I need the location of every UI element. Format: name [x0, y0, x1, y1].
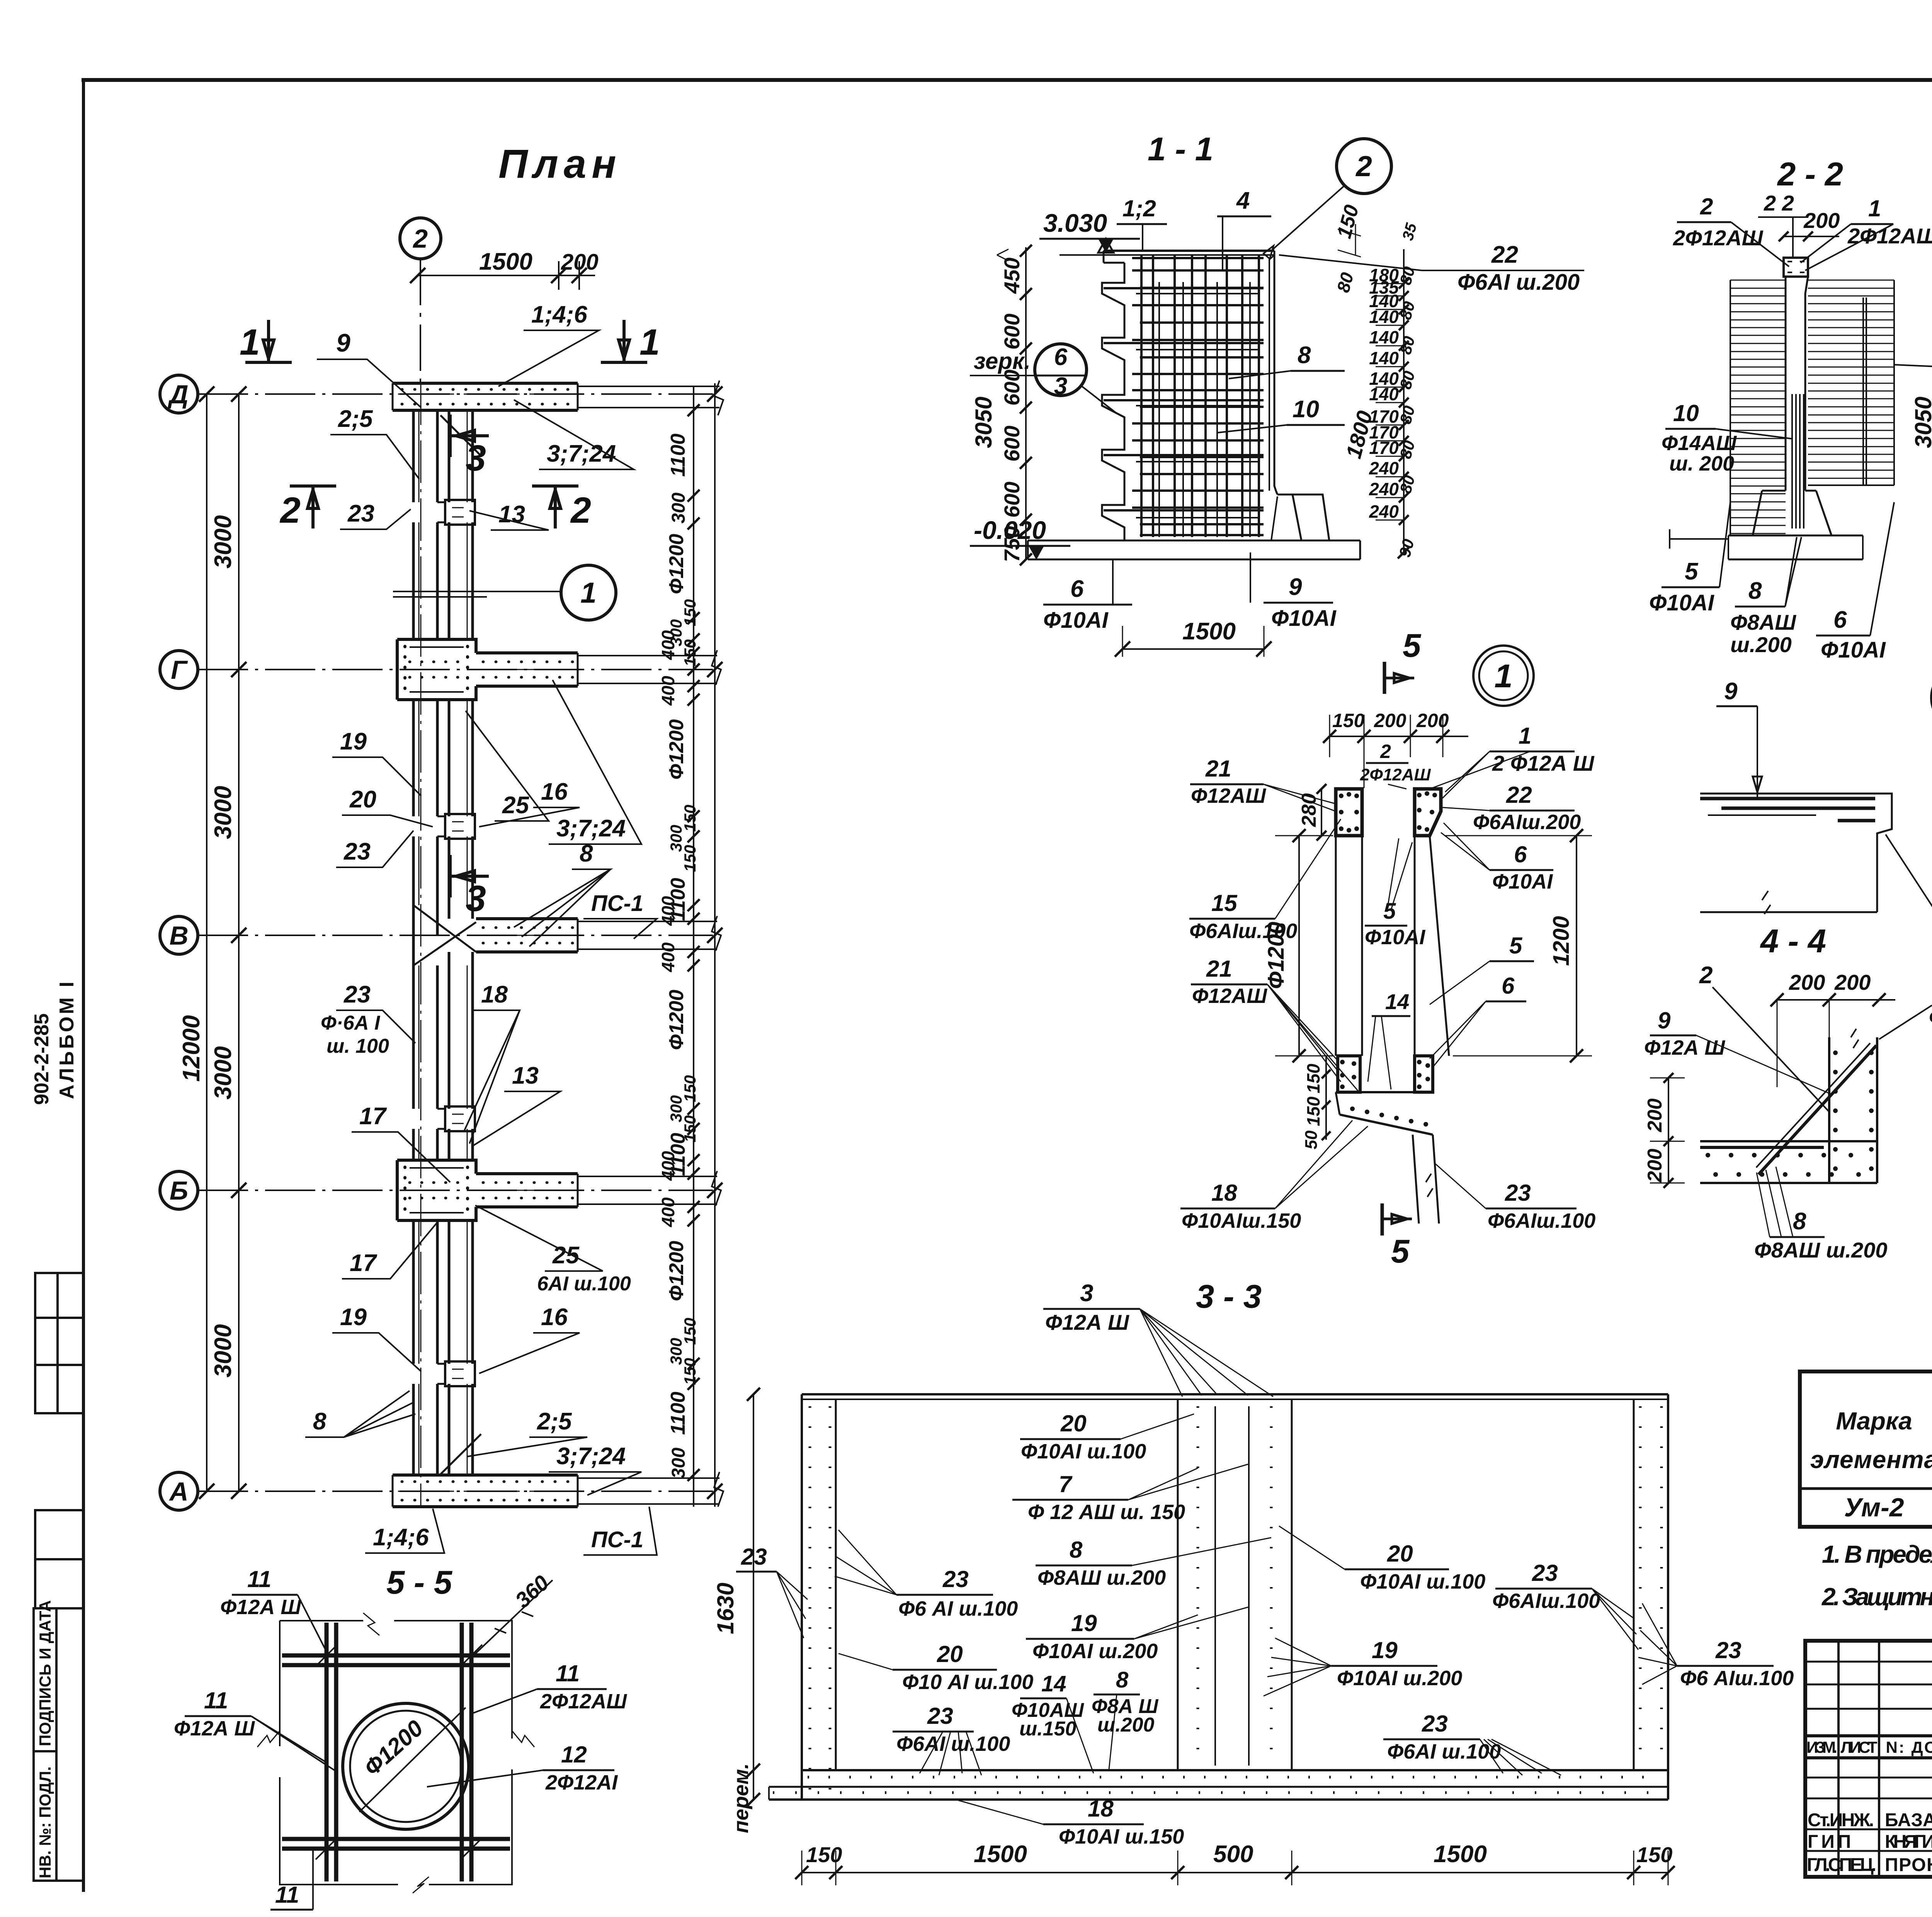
- svg-text:8: 8: [1070, 1537, 1083, 1563]
- svg-text:902-2-285: 902-2-285: [31, 1013, 53, 1105]
- svg-text:200: 200: [1644, 1149, 1666, 1183]
- svg-text:10: 10: [1293, 396, 1319, 423]
- plan small stub: [437, 502, 445, 522]
- section 3-3 middle wall: [1177, 1399, 1179, 1770]
- svg-text:9: 9: [336, 328, 350, 357]
- svg-text:25: 25: [502, 792, 529, 819]
- svg-text:150: 150: [681, 845, 699, 872]
- svg-text:Ф6АIш.100: Ф6АIш.100: [1189, 919, 1297, 943]
- corner chamfer: [440, 415, 481, 456]
- svg-text:1500: 1500: [1434, 1841, 1487, 1868]
- svg-text:1;2: 1;2: [1122, 195, 1156, 221]
- svg-text:500: 500: [1213, 1841, 1253, 1868]
- svg-text:23: 23: [344, 981, 371, 1008]
- svg-text:Ф10АI ш.150: Ф10АI ш.150: [1059, 1825, 1184, 1848]
- svg-text:14: 14: [1385, 989, 1409, 1014]
- svg-text:Ф1200: Ф1200: [665, 534, 688, 594]
- section 2-2 left block lines: [1730, 280, 1786, 281]
- svg-text:Ст.ИНЖ.: Ст.ИНЖ.: [1808, 1810, 1874, 1830]
- svg-text:240: 240: [1369, 458, 1399, 478]
- svg-text:Ф12А Ш: Ф12А Ш: [1929, 1005, 1932, 1029]
- section 5-5 diameter line: [359, 1708, 466, 1812]
- svg-text:150: 150: [1303, 1096, 1323, 1126]
- svg-text:Ф10АI ш.100: Ф10АI ш.100: [1360, 1570, 1485, 1593]
- svg-text:240: 240: [1369, 501, 1399, 522]
- wall end break: [712, 916, 721, 951]
- svg-text:2;5: 2;5: [338, 406, 373, 432]
- axis Г circle: [160, 651, 198, 688]
- svg-text:11: 11: [204, 1688, 228, 1713]
- dim 1500-200 top: [418, 275, 595, 276]
- svg-text:1: 1: [1519, 723, 1531, 749]
- svg-text:2 2: 2 2: [1764, 191, 1794, 215]
- svg-text:150: 150: [681, 639, 699, 666]
- plan wall segment left: [413, 1384, 437, 1475]
- svg-text:Ф1200: Ф1200: [665, 719, 688, 780]
- svg-text:Ф8АШ: Ф8АШ: [1730, 610, 1796, 634]
- section mark 2: [532, 484, 578, 488]
- detail 2 circle callout: [1931, 664, 1932, 731]
- axis Г line: [198, 669, 713, 670]
- section 2-2 top cap: [1784, 258, 1808, 277]
- bottom corner chamfer: [440, 1434, 481, 1474]
- section 5-5 dim 360: [471, 1580, 553, 1657]
- svg-text:14: 14: [1041, 1671, 1066, 1696]
- svg-text:13: 13: [512, 1062, 539, 1089]
- svg-text:23: 23: [347, 500, 374, 527]
- svg-text:240: 240: [1369, 479, 1399, 499]
- svg-text:600: 600: [1000, 482, 1024, 518]
- svg-text:300: 300: [668, 493, 689, 523]
- svg-text:8: 8: [1298, 342, 1311, 369]
- svg-text:12: 12: [561, 1742, 587, 1767]
- svg-text:200: 200: [561, 250, 599, 275]
- plan wall segment right: [449, 965, 473, 1109]
- section 1-1 tooth bars: [1104, 287, 1264, 289]
- svg-text:4: 4: [1236, 187, 1250, 214]
- svg-text:25: 25: [552, 1242, 580, 1269]
- svg-text:170: 170: [1369, 438, 1399, 458]
- section 5-5 circle: [343, 1703, 469, 1829]
- plan wall segment right: [449, 1129, 473, 1160]
- svg-text:ПОДПИСЬ И ДАТА: ПОДПИСЬ И ДАТА: [36, 1600, 54, 1746]
- svg-text:2: 2: [1700, 194, 1713, 219]
- svg-text:1: 1: [1868, 195, 1881, 221]
- axis А line: [198, 1490, 713, 1492]
- section 1-1 rebar mesh verticals: [1140, 255, 1143, 537]
- svg-text:Ф6АI ш.200: Ф6АI ш.200: [1458, 270, 1580, 295]
- plan wall top corner at D: [393, 383, 578, 410]
- detail 1 tail wall: [1413, 1135, 1439, 1224]
- svg-text:6АI ш.100: 6АI ш.100: [537, 1273, 631, 1295]
- svg-text:15: 15: [1211, 890, 1238, 916]
- svg-text:150: 150: [681, 1358, 699, 1385]
- svg-text:3050: 3050: [971, 397, 997, 448]
- plan axis vertical line: [420, 382, 422, 1507]
- svg-text:3000: 3000: [210, 515, 236, 569]
- svg-text:Ф6АIш.100: Ф6АIш.100: [1492, 1589, 1600, 1613]
- detail 1 bottom band: [1336, 1091, 1433, 1093]
- title block left table verticals: [1838, 1641, 1932, 1877]
- svg-text:5: 5: [1391, 1233, 1410, 1270]
- svg-text:19: 19: [1071, 1610, 1097, 1636]
- svg-text:6: 6: [1502, 973, 1515, 999]
- svg-text:23: 23: [1422, 1711, 1448, 1737]
- section 4-4 bottom slab: [1700, 1140, 1877, 1142]
- svg-text:21: 21: [1206, 956, 1232, 982]
- svg-text:450: 450: [1000, 258, 1024, 294]
- svg-text:6: 6: [1833, 607, 1847, 633]
- section 1-1 right dim ladder: [1403, 249, 1405, 552]
- svg-text:Ф10АIш.150: Ф10АIш.150: [1182, 1209, 1301, 1232]
- section 3-3 box outline: [802, 1393, 1668, 1395]
- svg-text:5: 5: [1403, 627, 1422, 664]
- svg-text:11: 11: [247, 1566, 271, 1592]
- svg-text:18: 18: [1211, 1180, 1237, 1206]
- svg-text:Ф12А Ш: Ф12А Ш: [1644, 1036, 1725, 1059]
- section mark 1: [601, 361, 647, 364]
- svg-text:1 - 1: 1 - 1: [1148, 131, 1213, 168]
- svg-text:23: 23: [1715, 1637, 1742, 1663]
- svg-text:2: 2: [1355, 150, 1372, 182]
- svg-text:750: 750: [1000, 526, 1024, 562]
- section 1-1 left dim chain: [1025, 247, 1027, 560]
- svg-text:19: 19: [1372, 1637, 1398, 1663]
- svg-text:2 - 2: 2 - 2: [1777, 156, 1843, 193]
- svg-text:ш.150: ш.150: [1019, 1718, 1077, 1740]
- svg-text:Ф1200: Ф1200: [665, 990, 688, 1050]
- svg-text:Ф6АI ш.100: Ф6АI ш.100: [896, 1732, 1010, 1756]
- detail 1 circle callout: [1473, 646, 1534, 706]
- section 2-2 foot: [1753, 491, 1832, 535]
- svg-text:Ф12А Ш: Ф12А Ш: [174, 1717, 255, 1740]
- svg-text:3;7;24: 3;7;24: [556, 815, 626, 842]
- plan wall segment left: [413, 700, 437, 816]
- svg-text:11: 11: [556, 1660, 580, 1686]
- svg-text:ПРОНИН: ПРОНИН: [1885, 1855, 1932, 1875]
- svg-text:1200: 1200: [1549, 916, 1574, 966]
- svg-text:8: 8: [1116, 1667, 1129, 1693]
- plan wall segment left: [413, 522, 437, 639]
- svg-text:20: 20: [1387, 1541, 1413, 1567]
- svg-text:ш. 100: ш. 100: [327, 1035, 389, 1057]
- section 5-5 crossing ticks: [316, 1645, 337, 1666]
- svg-text:150: 150: [1636, 1842, 1672, 1867]
- svg-text:20: 20: [937, 1641, 963, 1667]
- svg-text:23: 23: [741, 1544, 767, 1570]
- svg-text:11: 11: [275, 1882, 299, 1908]
- svg-text:ПС-1: ПС-1: [591, 891, 643, 916]
- svg-text:1: 1: [1494, 658, 1512, 695]
- section 2-2 wall: [1786, 277, 1808, 491]
- svg-text:зерк.: зерк.: [974, 348, 1031, 374]
- axis Б circle: [160, 1171, 198, 1209]
- svg-text:2: 2: [1699, 962, 1713, 989]
- detail 2 slab outline: [1700, 794, 1892, 912]
- svg-text:600: 600: [1000, 314, 1024, 350]
- svg-text:23: 23: [344, 838, 371, 865]
- svg-text:БАЗАНОВ: БАЗАНОВ: [1885, 1810, 1932, 1830]
- svg-text:1100: 1100: [667, 1392, 689, 1435]
- svg-text:Ф1200: Ф1200: [665, 1241, 688, 1301]
- svg-text:400: 400: [658, 1151, 678, 1181]
- plan cross wall thin: [578, 1176, 717, 1204]
- svg-text:2Ф12АШ: 2Ф12АШ: [1360, 765, 1431, 784]
- plan junction block: [397, 1160, 476, 1174]
- svg-text:2Ф12АШ: 2Ф12АШ: [1673, 226, 1764, 250]
- svg-text:16: 16: [541, 1304, 568, 1331]
- svg-text:23: 23: [927, 1703, 953, 1729]
- plan wall segment right: [449, 1220, 473, 1364]
- svg-text:23: 23: [1532, 1560, 1558, 1586]
- svg-text:150: 150: [806, 1842, 842, 1867]
- svg-text:В: В: [169, 921, 188, 950]
- svg-text:1: 1: [639, 322, 660, 363]
- svg-text:200: 200: [1803, 208, 1840, 233]
- plan small stub: [437, 1109, 445, 1129]
- page frame top border: [83, 78, 1932, 82]
- svg-text:А: А: [168, 1477, 188, 1506]
- svg-text:Ф12А Ш: Ф12А Ш: [1045, 1310, 1129, 1334]
- axis Д line: [198, 393, 713, 395]
- plan cross wall thin: [578, 921, 717, 949]
- section mark 3: [449, 855, 452, 897]
- section 4-4 diagonal bars: [1759, 1045, 1876, 1174]
- svg-text:3: 3: [1080, 1280, 1093, 1307]
- left dimension chain 3000s: [238, 394, 240, 1491]
- svg-text:16: 16: [541, 778, 568, 805]
- title block outer: [1805, 1641, 1932, 1877]
- inventory number box: [34, 1751, 56, 1881]
- section mark 1: [245, 361, 292, 364]
- svg-text:ш. 200: ш. 200: [1669, 452, 1734, 475]
- section 2-2 right block lines: [1808, 280, 1894, 281]
- svg-text:ПС-1: ПС-1: [591, 1527, 643, 1552]
- section 1-1 inner cage: [1158, 282, 1160, 537]
- svg-text:3000: 3000: [210, 786, 236, 839]
- svg-text:20: 20: [1060, 1411, 1087, 1436]
- detail 1 top dims 150 200 200: [1330, 736, 1468, 737]
- axis В line: [198, 935, 713, 936]
- svg-text:Ф10АI: Ф10АI: [1365, 926, 1425, 949]
- axis А circle: [160, 1472, 198, 1510]
- svg-text:2: 2: [1380, 741, 1391, 762]
- svg-text:17: 17: [359, 1103, 387, 1130]
- section 3-3 left dim 1630: [753, 1394, 754, 1800]
- svg-text:200: 200: [1416, 710, 1449, 731]
- svg-text:2: 2: [279, 490, 301, 531]
- detail 1 bottom right foot box: [1415, 1056, 1433, 1092]
- detail 1 left wall: [1336, 836, 1362, 1056]
- svg-text:3: 3: [466, 878, 486, 919]
- stamp middle cells: [35, 1510, 83, 1608]
- svg-text:400: 400: [658, 1197, 678, 1227]
- svg-text:19: 19: [340, 1304, 367, 1331]
- svg-text:Ф 12 АШ ш. 150: Ф 12 АШ ш. 150: [1028, 1501, 1185, 1524]
- svg-text:5: 5: [1509, 933, 1523, 958]
- armature table frame: [1800, 1371, 1932, 1527]
- svg-text:150: 150: [1303, 1064, 1323, 1093]
- plan top wall thin part: [578, 386, 719, 408]
- svg-text:2;5: 2;5: [537, 1408, 572, 1435]
- plan wall at V junction: [413, 905, 437, 965]
- section 2-2 wall rebar: [1791, 394, 1793, 529]
- svg-text:НВ. №: ПОДЛ.: НВ. №: ПОДЛ.: [36, 1766, 54, 1878]
- svg-text:Ф6 АIш.100: Ф6 АIш.100: [1680, 1667, 1794, 1690]
- plan cross wall hatched: [476, 653, 578, 686]
- axis В circle: [160, 916, 198, 954]
- svg-text:140: 140: [1369, 307, 1399, 327]
- plan small stub: [437, 1364, 445, 1384]
- plan cross wall hatched: [476, 1174, 578, 1207]
- svg-text:ИЗМ.: ИЗМ.: [1806, 1738, 1837, 1756]
- page frame left border: [82, 80, 85, 1890]
- plan small stub: [437, 816, 445, 836]
- svg-text:1: 1: [580, 576, 597, 609]
- svg-text:Ф10 АI ш.100: Ф10 АI ш.100: [902, 1671, 1033, 1694]
- svg-text:3000: 3000: [210, 1046, 236, 1100]
- svg-text:19: 19: [340, 728, 367, 755]
- grid 2 circle: [400, 218, 441, 259]
- svg-text:3: 3: [1054, 373, 1067, 399]
- section 3-3 left wall rebar: [835, 1399, 837, 1770]
- svg-text:10: 10: [1673, 400, 1699, 426]
- svg-text:Ф6АI ш.100: Ф6АI ш.100: [1387, 1740, 1501, 1763]
- plan wall segment right: [449, 410, 473, 502]
- svg-text:элемента: элемента: [1810, 1446, 1932, 1473]
- plan wall segment left: [413, 410, 437, 502]
- callout circle 2: [1337, 139, 1391, 194]
- svg-text:5: 5: [1383, 899, 1396, 924]
- svg-text:Ф12А Ш: Ф12А Ш: [220, 1596, 301, 1619]
- detail 1 right wall: [1414, 836, 1416, 1056]
- svg-text:18: 18: [1088, 1796, 1114, 1822]
- plan cross wall hatched: [476, 919, 578, 952]
- svg-text:1500: 1500: [479, 248, 532, 275]
- svg-text:22: 22: [1506, 782, 1532, 808]
- svg-text:3 - 3: 3 - 3: [1196, 1278, 1262, 1315]
- section 5-5 horizontal bars: [282, 1654, 510, 1658]
- svg-text:Ф6 АI ш.100: Ф6 АI ш.100: [898, 1597, 1018, 1620]
- plan wall segment left: [413, 1129, 437, 1160]
- section 4-4 wall verticals: [1828, 1037, 1830, 1183]
- svg-text:400: 400: [658, 630, 678, 660]
- detail 1 bottom left foot box: [1338, 1056, 1360, 1092]
- svg-text:План: План: [498, 141, 622, 187]
- plan wall segment right: [449, 1384, 473, 1475]
- svg-text:Ф·6А I: Ф·6А I: [321, 1012, 381, 1034]
- section 3-3 bottom dims: [802, 1872, 1668, 1873]
- svg-text:2 Ф12А Ш: 2 Ф12А Ш: [1492, 751, 1595, 775]
- section 4-4 dims 200 200: [1777, 999, 1895, 1001]
- svg-text:21: 21: [1205, 756, 1231, 782]
- detail 1 dim 280: [1321, 789, 1322, 836]
- svg-text:9: 9: [1658, 1008, 1671, 1033]
- wall end break: [712, 650, 721, 685]
- svg-text:8: 8: [1748, 578, 1762, 604]
- section 5-5 vertical bars: [325, 1623, 329, 1881]
- section 4-4 left dims 200 200: [1668, 1078, 1669, 1183]
- svg-text:3050: 3050: [1910, 397, 1932, 448]
- svg-text:N: ДОКУМ.: N: ДОКУМ.: [1886, 1738, 1932, 1756]
- svg-text:200: 200: [1789, 970, 1825, 994]
- svg-text:1;4;6: 1;4;6: [373, 1524, 429, 1551]
- plan junction block: [397, 639, 476, 653]
- svg-text:140: 140: [1369, 327, 1399, 347]
- plan wall segment left: [413, 1220, 437, 1364]
- svg-text:12000: 12000: [178, 1015, 205, 1082]
- svg-text:АЛЬБОМ I: АЛЬБОМ I: [56, 979, 78, 1099]
- svg-text:4 - 4: 4 - 4: [1760, 923, 1826, 960]
- svg-text:8: 8: [580, 840, 593, 867]
- section 5-5 square: [280, 1621, 512, 1885]
- svg-text:Ф14АШ: Ф14АШ: [1662, 432, 1737, 455]
- svg-text:8: 8: [1793, 1208, 1806, 1235]
- svg-text:23: 23: [942, 1566, 969, 1592]
- svg-text:КНЯГИНИЧЕВ: КНЯГИНИЧЕВ: [1885, 1832, 1932, 1852]
- svg-text:22: 22: [1491, 241, 1518, 268]
- svg-text:2Ф12АШ: 2Ф12АШ: [1847, 224, 1932, 248]
- svg-text:2: 2: [412, 224, 428, 253]
- detail 1 left wall box: [1336, 789, 1362, 836]
- detail 1 dim 1200 right: [1576, 836, 1577, 1056]
- svg-text:200: 200: [1644, 1098, 1666, 1132]
- svg-text:ш.200: ш.200: [1730, 632, 1792, 657]
- axis Д circle: [160, 375, 198, 413]
- detail 1 section mark 5 top: [1383, 662, 1386, 694]
- section mark 3: [449, 415, 452, 457]
- plan bottom wall at A: [393, 1475, 578, 1507]
- svg-text:2: 2: [570, 490, 591, 531]
- svg-text:400: 400: [658, 896, 678, 926]
- svg-text:Ф8АШ ш.200: Ф8АШ ш.200: [1037, 1566, 1166, 1589]
- svg-text:1. В пределах отверстий арма: 1. В пределах отверстий арматуры вырезат…: [1822, 1540, 1932, 1568]
- signature date box: [34, 1608, 56, 1751]
- svg-text:ЛИСТ: ЛИСТ: [1841, 1738, 1878, 1756]
- svg-text:перем.: перем.: [730, 1763, 753, 1833]
- plan wall segment left: [413, 965, 437, 1109]
- stamp upper cells: [35, 1273, 83, 1413]
- svg-text:3000: 3000: [210, 1324, 236, 1378]
- section 3-3 right wall: [1633, 1399, 1635, 1770]
- plan wall segment right: [449, 836, 473, 905]
- svg-text:200: 200: [1834, 970, 1871, 994]
- svg-text:150: 150: [1332, 710, 1365, 731]
- axis Б line: [198, 1190, 713, 1191]
- svg-text:400: 400: [658, 942, 678, 972]
- svg-text:9: 9: [1724, 678, 1738, 705]
- svg-text:3: 3: [466, 438, 486, 479]
- svg-text:6: 6: [1054, 344, 1068, 370]
- section 3-3 bottom slab: [802, 1769, 1668, 1771]
- svg-text:20: 20: [349, 786, 376, 813]
- section 1-1 wall profile: [1104, 250, 1274, 252]
- detail 1 right wall box: [1415, 789, 1441, 836]
- wall end break: [712, 1171, 721, 1206]
- svg-text:400: 400: [658, 676, 678, 706]
- svg-text:ш.200: ш.200: [1097, 1714, 1155, 1736]
- svg-text:2Ф12АI: 2Ф12АI: [545, 1771, 618, 1794]
- svg-text:50: 50: [1302, 1130, 1321, 1149]
- detail 2 rebar bars: [1700, 797, 1875, 800]
- svg-text:Ф12АШ: Ф12АШ: [1192, 984, 1267, 1008]
- detail 1 section mark 5 bottom: [1381, 1203, 1384, 1236]
- svg-text:1630: 1630: [713, 1583, 738, 1634]
- svg-text:1: 1: [240, 322, 260, 363]
- svg-text:Ф8АШ ш.200: Ф8АШ ш.200: [1754, 1238, 1887, 1262]
- svg-text:1;4;6: 1;4;6: [531, 301, 587, 328]
- left margin stamp: [34, 1273, 83, 1881]
